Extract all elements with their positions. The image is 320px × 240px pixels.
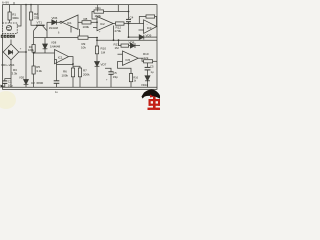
svg-text:1μ: 1μ <box>151 70 154 74</box>
phototransistor inside box <box>6 25 11 30</box>
resistor R14 feedback <box>146 15 155 18</box>
wire x21 drop to receiver box <box>17 5 21 26</box>
svg-text:VD8: VD8 <box>129 41 135 45</box>
svg-text:VD5: VD5 <box>19 75 25 79</box>
svg-text:6~9V: 6~9V <box>2 0 9 4</box>
resistor R2 <box>30 12 33 20</box>
wire IC4 upper input <box>34 52 55 54</box>
resistor R7 <box>73 66 80 68</box>
ground bus <box>2 86 157 88</box>
capacitor C2 <box>54 80 60 82</box>
svg-text:C4: C4 <box>130 15 134 19</box>
wire drop x118 to R12b <box>118 40 120 45</box>
svg-text:10k: 10k <box>81 46 86 50</box>
bridge rectifier diamond VD1-VD4 <box>3 44 19 60</box>
svg-text:1M: 1M <box>115 46 120 50</box>
svg-text:33p: 33p <box>113 75 118 79</box>
right mid rail y40 <box>97 39 157 41</box>
wire R14 right leg <box>155 17 157 27</box>
svg-text:1M: 1M <box>101 50 106 54</box>
wire IC3 lower stub <box>139 29 144 31</box>
diode VD6 <box>52 20 57 25</box>
receiver dashed box <box>3 23 18 34</box>
bubble on IC1 apex <box>60 21 62 23</box>
wire IC5 input stubs <box>118 53 123 55</box>
logo black brush stroke <box>142 90 161 99</box>
wire x33 column with R4 <box>33 38 35 45</box>
wire IC2 output down <box>113 26 115 41</box>
wire x26 long vertical bus <box>25 5 27 80</box>
svg-text:C5: C5 <box>150 65 154 69</box>
svg-text:VD6: VD6 <box>52 16 58 20</box>
resistor R8 <box>82 21 91 24</box>
svg-text:1N4148: 1N4148 <box>49 26 59 30</box>
svg-text:390k: 390k <box>12 16 19 20</box>
svg-text:VD10: VD10 <box>141 83 148 87</box>
frame left border <box>2 5 4 90</box>
op-amp IC3 <box>144 20 157 34</box>
svg-text:C2: C2 <box>31 81 35 85</box>
paper background <box>0 0 160 110</box>
wire R14 left leg <box>139 17 146 24</box>
svg-text:6800: 6800 <box>37 81 44 85</box>
svg-text:IC2: IC2 <box>100 22 105 26</box>
frame right border <box>156 5 158 90</box>
svg-text:100k: 100k <box>62 73 69 77</box>
op-amp IC1 (points left) <box>62 15 78 29</box>
svg-text:100k: 100k <box>83 25 90 29</box>
wire R12 to IC3 <box>124 23 144 25</box>
frame top rail <box>2 4 157 6</box>
svg-text:IC5: IC5 <box>126 58 131 62</box>
capacitor C5 33p <box>105 68 111 72</box>
diode VD8b above IC4 <box>44 38 46 44</box>
op-amp IC4 lower-left <box>55 50 69 64</box>
svg-text:IC1: IC1 <box>67 21 72 25</box>
logo red character <box>148 95 161 111</box>
svg-text:200k: 200k <box>83 73 90 77</box>
diode VD5 <box>24 80 29 85</box>
wire IC2 output <box>113 23 115 25</box>
wire IC5 output <box>138 57 143 59</box>
svg-text:3.3k: 3.3k <box>36 69 42 73</box>
capacitor C4 <box>128 5 130 20</box>
wire IC1 base lower stub <box>79 29 81 38</box>
capacitor C1 <box>5 79 11 81</box>
diode VD9 <box>139 35 144 40</box>
wire IC1 input to R8 <box>78 21 82 23</box>
resistor R5 <box>32 66 35 74</box>
wire IC2 plus stub <box>93 27 97 29</box>
diode VD7 <box>95 62 100 67</box>
svg-text:IC3: IC3 <box>147 26 152 30</box>
svg-text:R8: R8 <box>84 17 88 21</box>
wire VT1 collector <box>37 5 39 20</box>
yellow stain bottom-left <box>0 91 16 109</box>
op-amp IC5 <box>123 51 139 65</box>
input arrow bottom-left <box>1 85 5 88</box>
svg-text:VD7: VD7 <box>101 62 107 66</box>
wire x97 column <box>96 38 98 46</box>
wire rail drop x118 <box>117 5 119 12</box>
wire diamond top stub <box>10 40 12 45</box>
wire VT1 right leg / VD6 node <box>46 22 48 37</box>
resistor R11 feedback <box>94 10 104 13</box>
wire IC4 feedback loop <box>69 57 74 68</box>
wire rail drop x97 <box>97 5 99 12</box>
resistor R12 <box>116 22 125 25</box>
svg-text:1N4648: 1N4648 <box>50 44 61 48</box>
svg-text:VD9: VD9 <box>146 33 152 37</box>
resistor R6 <box>71 68 74 77</box>
svg-text:R4: R4 <box>29 45 33 49</box>
resistor R13 1M <box>121 44 129 47</box>
resistor R15 12k <box>142 58 144 61</box>
svg-text:R11: R11 <box>96 6 102 10</box>
wire VT1 left leg down <box>33 31 35 38</box>
wire IC4 lower input <box>55 58 57 60</box>
svg-text:22k: 22k <box>34 15 39 19</box>
wire R8 to IC2 node <box>91 21 97 23</box>
mid horizontal rail <box>34 37 78 39</box>
frame bottom border <box>2 88 157 90</box>
svg-text:270k: 270k <box>115 29 122 33</box>
wire x31 drop to R2 <box>30 5 32 12</box>
svg-text:VD1~VD4: VD1~VD4 <box>1 63 15 67</box>
resistor R16 below IC5 <box>118 61 132 73</box>
svg-text:IC1: IC1 <box>58 55 63 59</box>
diode VD8 <box>130 43 135 48</box>
transistor VT1 <box>36 24 45 26</box>
wire R11 left leg <box>92 12 97 20</box>
capacitor C6 <box>147 63 149 68</box>
diode VD10 <box>145 76 150 81</box>
junction dots <box>25 4 129 65</box>
wire R2 to VT1 base <box>31 20 36 25</box>
labels <box>1 0 154 93</box>
resistor R4 <box>32 45 35 53</box>
op-amp IC2 <box>97 17 113 31</box>
resistor R1 <box>8 12 11 20</box>
wire R11 to C4 column <box>104 11 129 13</box>
svg-text:VT1: VT1 <box>37 21 43 25</box>
wire IC1 bottom stub <box>70 27 72 33</box>
wire diamond bottom to ground <box>10 60 12 87</box>
svg-text:3.3k: 3.3k <box>12 72 18 76</box>
resistor R10 vertical <box>95 46 98 54</box>
svg-text:150k: 150k <box>95 14 102 18</box>
svg-text:10μ: 10μ <box>8 83 13 87</box>
resistor R9 horizontal on mid rail <box>78 36 88 39</box>
svg-text:12k: 12k <box>144 56 149 60</box>
svg-text:100k: 100k <box>28 48 34 52</box>
